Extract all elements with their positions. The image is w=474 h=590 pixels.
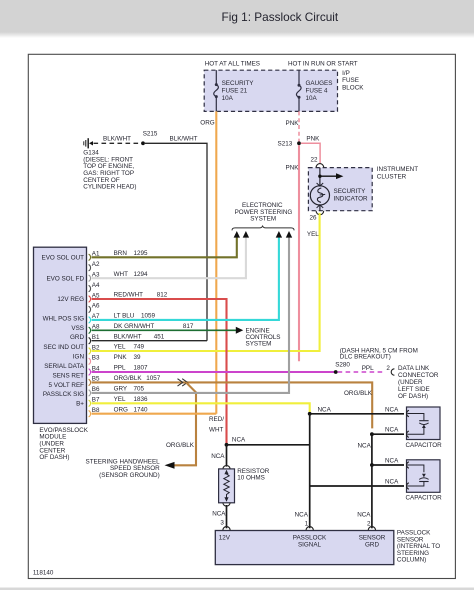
svg-text:PNK: PNK xyxy=(286,120,300,127)
pin B4 xyxy=(89,365,100,375)
svg-text:NCA: NCA xyxy=(358,442,372,449)
svg-text:S215: S215 xyxy=(143,131,158,138)
pin B7 xyxy=(89,397,100,407)
wire A8 DK GRN/WHT 817 to engine controls arrow xyxy=(92,323,237,330)
svg-text:WHT: WHT xyxy=(114,271,128,278)
title bar xyxy=(0,0,474,38)
arrow 3 (LT BLU) xyxy=(276,231,282,238)
svg-text:YEL: YEL xyxy=(114,396,126,403)
svg-text:SERIAL DATA: SERIAL DATA xyxy=(44,363,85,370)
svg-text:RED/WHT: RED/WHT xyxy=(114,292,144,299)
bottom bar xyxy=(0,588,474,590)
node NCA junction capacitor 1 bottom xyxy=(370,427,404,436)
svg-text:B3: B3 xyxy=(92,355,100,362)
node NCA junction on RED/WHT xyxy=(225,437,246,447)
svg-text:1059: 1059 xyxy=(141,313,156,320)
pin A5 xyxy=(89,292,100,302)
arrow 2 (WHT) xyxy=(243,231,249,238)
svg-text:OF DASH): OF DASH) xyxy=(398,393,428,400)
svg-text:ORG: ORG xyxy=(200,120,214,127)
svg-text:LEFT SIDE: LEFT SIDE xyxy=(398,386,430,393)
svg-text:2: 2 xyxy=(386,365,390,372)
wire A5 RED/WHT 812 down to NCA node xyxy=(92,292,227,443)
wire PNK from S213 down to B3 row xyxy=(286,145,300,361)
wire A3 WHT 1294 to steering arrow 2 xyxy=(92,237,246,278)
wire NCA capacitor 2 bottom xyxy=(310,479,404,487)
svg-text:812: 812 xyxy=(157,292,168,299)
svg-text:118140: 118140 xyxy=(33,570,54,577)
pin 1 connector xyxy=(306,527,313,531)
svg-text:GAUGES: GAUGES xyxy=(306,80,333,87)
wire NCA vertical between capacitors xyxy=(358,434,372,465)
svg-text:B+: B+ xyxy=(76,401,84,408)
svg-text:12V: 12V xyxy=(219,534,231,541)
svg-text:SECURITY: SECURITY xyxy=(334,188,367,195)
svg-text:ORG/BLK: ORG/BLK xyxy=(114,375,143,382)
engine controls system arrow xyxy=(236,327,281,348)
ground G134 xyxy=(83,138,136,190)
pin A8 xyxy=(89,324,100,334)
wire NCA from red junction right xyxy=(227,444,310,446)
pin B6 xyxy=(89,386,100,396)
svg-text:PASSLCK SIG: PASSLCK SIG xyxy=(43,391,84,398)
svg-text:39: 39 xyxy=(134,354,142,361)
wire branch ORG/BLK to steering handwheel speed sensor xyxy=(86,382,196,478)
svg-text:YEL: YEL xyxy=(114,344,126,351)
svg-text:I/P: I/P xyxy=(342,70,350,77)
svg-text:IGN: IGN xyxy=(73,354,85,361)
svg-text:NCA: NCA xyxy=(385,479,399,486)
node NCA junction capacitor 2 top xyxy=(370,458,404,467)
svg-text:CYLINDER HEAD): CYLINDER HEAD) xyxy=(83,184,136,191)
pin B1 xyxy=(89,334,100,344)
svg-text:10 OHMS: 10 OHMS xyxy=(237,475,265,482)
in-line connector on B5 xyxy=(178,379,188,386)
svg-text:SYSTEM: SYSTEM xyxy=(246,340,272,347)
svg-text:A6: A6 xyxy=(92,303,100,310)
svg-text:FUSE 21: FUSE 21 xyxy=(222,88,248,95)
wire PPL dashed to data link connector pin 2 xyxy=(338,365,386,372)
svg-text:ORG/BLK: ORG/BLK xyxy=(344,390,373,397)
pin A6 xyxy=(89,303,100,313)
svg-text:Fig 1: Passlock Circuit: Fig 1: Passlock Circuit xyxy=(222,10,339,24)
svg-text:749: 749 xyxy=(134,344,145,351)
svg-text:A2: A2 xyxy=(92,261,100,268)
svg-text:(UNDER: (UNDER xyxy=(398,379,423,386)
svg-text:A4: A4 xyxy=(92,282,100,289)
svg-text:NCA: NCA xyxy=(211,453,225,460)
svg-text:DLC BREAKOUT): DLC BREAKOUT) xyxy=(340,354,391,361)
svg-text:451: 451 xyxy=(154,333,165,340)
svg-text:26: 26 xyxy=(310,215,318,222)
svg-text:10A: 10A xyxy=(306,95,318,102)
svg-text:10A: 10A xyxy=(222,95,234,102)
svg-text:WHT: WHT xyxy=(209,426,223,433)
svg-text:BLOCK: BLOCK xyxy=(342,85,364,92)
svg-text:FUSE: FUSE xyxy=(342,77,359,84)
svg-text:BRN: BRN xyxy=(114,250,128,257)
svg-text:NCA: NCA xyxy=(295,511,309,518)
pin A3 xyxy=(89,272,100,282)
pin 2 connector xyxy=(368,527,375,531)
wire B8 ORG 1740 from fuse riser xyxy=(92,406,217,413)
svg-text:ORG: ORG xyxy=(114,406,128,413)
svg-text:NCA: NCA xyxy=(357,511,371,518)
svg-text:HOT AT ALL TIMES: HOT AT ALL TIMES xyxy=(205,60,260,67)
svg-text:NCA: NCA xyxy=(385,427,399,434)
pin B5 xyxy=(89,376,100,386)
svg-text:CAPACITOR: CAPACITOR xyxy=(406,494,443,501)
pin A7 xyxy=(89,313,100,323)
svg-text:LT BLU: LT BLU xyxy=(114,313,135,320)
svg-text:YEL: YEL xyxy=(307,231,319,238)
pin 2 of data link connector xyxy=(386,365,394,375)
svg-text:CLUSTER: CLUSTER xyxy=(377,173,407,180)
node S280 xyxy=(334,347,418,374)
svg-text:SIGNAL: SIGNAL xyxy=(298,541,322,548)
wire A1 BRN 1295 to steering arrow 1 xyxy=(92,237,237,257)
svg-text:SECURITY: SECURITY xyxy=(222,80,255,87)
wire NCA to capacitor 1 top xyxy=(310,406,404,414)
fuse F21 SECURITY FUSE 21 10A xyxy=(214,70,255,111)
svg-text:VSS: VSS xyxy=(71,325,84,332)
wire B7 YEL 1836 down to NCA node xyxy=(92,396,310,412)
svg-text:1057: 1057 xyxy=(146,375,161,382)
wire B2 YEL 749 xyxy=(114,344,145,351)
security indicator lamp U1 xyxy=(310,168,368,211)
wire NCA vertical to sensor grd pin 2 xyxy=(357,465,372,528)
svg-text:GRY: GRY xyxy=(114,386,128,393)
wire B4 PPL 1807 to S280 xyxy=(92,365,336,372)
svg-text:BLK/WHT: BLK/WHT xyxy=(103,136,131,143)
pin 3 connector xyxy=(223,527,230,531)
capacitor C1 xyxy=(406,407,443,449)
resistor R1 10 ohms xyxy=(219,466,270,507)
svg-text:PNK: PNK xyxy=(306,136,320,143)
svg-text:SENSOR: SENSOR xyxy=(359,534,386,541)
svg-text:1294: 1294 xyxy=(134,271,149,278)
svg-text:CONNECTOR: CONNECTOR xyxy=(398,372,439,379)
svg-text:PPL: PPL xyxy=(114,365,126,372)
wire NCA vertical to passlock signal pin 1 xyxy=(295,414,310,529)
pin B3 xyxy=(89,355,100,365)
svg-text:PASSLOCK: PASSLOCK xyxy=(293,534,327,541)
svg-text:EVO SOL OUT: EVO SOL OUT xyxy=(42,255,85,262)
svg-text:S280: S280 xyxy=(335,362,350,369)
svg-text:B2: B2 xyxy=(92,344,100,351)
pin B8 xyxy=(89,407,100,417)
svg-text:OF DASH): OF DASH) xyxy=(39,454,69,461)
wire ORG from fuse 21 down to B8 row xyxy=(200,111,216,413)
svg-text:DK GRN/WHT: DK GRN/WHT xyxy=(114,323,155,330)
passlock sensor box xyxy=(215,530,440,565)
svg-text:SENS RET: SENS RET xyxy=(53,372,85,379)
svg-text:1807: 1807 xyxy=(134,365,149,372)
svg-text:NCA: NCA xyxy=(212,510,226,517)
svg-text:DATA LINK: DATA LINK xyxy=(398,365,430,372)
svg-text:HOT IN RUN OR START: HOT IN RUN OR START xyxy=(288,60,358,67)
electronic power steering system label and brace xyxy=(232,202,294,231)
svg-text:3: 3 xyxy=(220,520,224,527)
svg-text:SYSTEM: SYSTEM xyxy=(250,216,276,223)
svg-text:22: 22 xyxy=(311,157,319,164)
svg-text:NCA: NCA xyxy=(232,437,246,444)
wire NCA resistor to pin 3 xyxy=(212,505,226,528)
svg-text:1740: 1740 xyxy=(134,406,149,413)
wire A7 LT BLU 1059 to steering arrow 3 xyxy=(92,237,279,320)
svg-text:NCA: NCA xyxy=(385,406,399,413)
svg-text:EVO SOL FD: EVO SOL FD xyxy=(46,275,84,282)
pin A1 xyxy=(89,251,100,261)
wire B3 PNK 39 xyxy=(114,354,141,361)
arrow 1 (BRN) xyxy=(234,231,240,238)
svg-text:PNK: PNK xyxy=(286,164,300,171)
EVO/Passlock module box xyxy=(34,247,89,461)
I/P fuse block xyxy=(204,60,364,111)
pin 26 xyxy=(310,211,324,222)
capacitor C2 xyxy=(406,460,443,502)
wire PNK dashed from fuse 4 to S213 xyxy=(286,111,300,141)
wire PNK from S213 to instrument cluster pin 22 xyxy=(301,136,320,164)
node S215 xyxy=(141,131,158,146)
svg-text:RED/: RED/ xyxy=(209,416,224,423)
wire B1 BLK/WHT 451 to S215 riser xyxy=(92,333,208,340)
svg-text:INSTRUMENT: INSTRUMENT xyxy=(377,166,418,173)
svg-text:COLUMN): COLUMN) xyxy=(397,557,426,564)
data link connector label xyxy=(398,365,439,400)
svg-text:B1: B1 xyxy=(92,334,100,341)
node S213 xyxy=(278,140,301,147)
svg-text:12V REG: 12V REG xyxy=(57,296,84,303)
svg-text:BLK/WHT: BLK/WHT xyxy=(114,333,142,340)
pin A4 xyxy=(89,282,100,292)
pin 22 xyxy=(311,157,324,168)
svg-text:SEC IND OUT: SEC IND OUT xyxy=(43,344,84,351)
pin A2 xyxy=(89,261,100,271)
svg-text:1295: 1295 xyxy=(134,250,149,257)
wire NCA down to resistor xyxy=(211,445,226,467)
wire BLK/WHT dashed from G134 to S215 xyxy=(94,136,141,144)
svg-text:NCA: NCA xyxy=(318,406,332,413)
svg-text:INDICATOR: INDICATOR xyxy=(334,196,369,203)
pin B2 xyxy=(89,344,100,354)
arrow 4 (GRY) xyxy=(286,231,292,238)
instrument cluster box xyxy=(308,166,418,211)
svg-text:PNK: PNK xyxy=(114,354,128,361)
svg-text:BLK/WHT: BLK/WHT xyxy=(170,136,198,143)
node NCA junction on B7 xyxy=(308,406,332,415)
wire B6 GRY 705 to steering arrow 4 xyxy=(92,237,290,393)
svg-text:705: 705 xyxy=(134,386,145,393)
fuse F4 GAUGES FUSE 4 10A xyxy=(296,70,332,111)
svg-text:WHL POS SIG: WHL POS SIG xyxy=(43,316,85,323)
wire BLK/WHT from S215 right and down to module pin B1 xyxy=(145,136,207,341)
svg-text:GRD: GRD xyxy=(365,541,379,548)
wire YEL from pin 26 down to B2 row xyxy=(92,213,320,351)
svg-text:S213: S213 xyxy=(278,140,293,147)
svg-text:1836: 1836 xyxy=(134,396,149,403)
svg-text:(SENSOR GROUND): (SENSOR GROUND) xyxy=(99,472,160,479)
svg-text:5 VOLT REF: 5 VOLT REF xyxy=(49,382,85,389)
svg-text:CAPACITOR: CAPACITOR xyxy=(406,442,443,449)
svg-text:NCA: NCA xyxy=(385,458,399,465)
svg-text:ORG/BLK: ORG/BLK xyxy=(166,442,195,449)
wire B5 ORG/BLK 1057 to right riser xyxy=(92,375,373,428)
svg-text:PPL: PPL xyxy=(362,365,374,372)
svg-text:FUSE 4: FUSE 4 xyxy=(306,88,329,95)
svg-text:817: 817 xyxy=(183,323,194,330)
svg-text:GRD: GRD xyxy=(70,334,84,341)
